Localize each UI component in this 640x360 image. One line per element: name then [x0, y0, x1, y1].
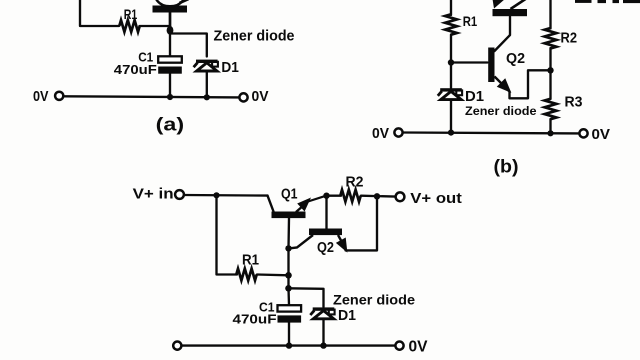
svg-text:Q2: Q2 — [317, 240, 334, 256]
resistor R3 (b) — [545, 94, 583, 120]
svg-text:(a): (a) — [156, 115, 185, 135]
svg-text:0V: 0V — [409, 339, 429, 356]
0V rail (b) — [403, 131, 580, 134]
wire Q2 base (c) — [325, 196, 327, 229]
svg-text:R1: R1 — [242, 253, 259, 269]
wire R1 to node (b) — [450, 35, 452, 63]
svg-text:V+ out: V+ out — [410, 191, 462, 207]
terminal left (c) — [173, 342, 181, 350]
svg-text:R1: R1 — [124, 6, 138, 22]
wire R1 to base node (c) — [257, 273, 289, 276]
svg-text:Q2: Q2 — [506, 51, 525, 67]
wire node D to node E (c) — [287, 275, 289, 288]
node: zener on rail (b) — [448, 130, 454, 136]
terminal 0V left (b) — [372, 125, 403, 142]
wire R3 to rail (b) — [549, 119, 551, 133]
wire — [140, 25, 171, 27]
svg-text:R2: R2 — [346, 175, 364, 191]
transistor Q2 (c) — [289, 229, 346, 257]
terminal 0V right (b) — [579, 126, 610, 143]
resistor R2 (c) — [340, 175, 363, 202]
wire down to R1 (c) — [217, 195, 238, 274]
capacitor C1 470uF (c) — [233, 299, 302, 326]
svg-text:Zener diode: Zener diode — [214, 28, 295, 45]
svg-text:V+ in: V+ in — [133, 187, 174, 203]
wire zener branch (c) — [289, 288, 324, 307]
zener diode D1 (a) — [194, 60, 239, 76]
resistor R1 (circuit a) — [119, 6, 139, 32]
wire to zener (a) — [170, 34, 207, 57]
0V rail (a) — [64, 96, 240, 97]
wire C1 to 0V rail (a) — [169, 74, 171, 97]
svg-text:0V: 0V — [33, 88, 49, 105]
svg-text:Zener diode: Zener diode — [333, 292, 415, 308]
zener diode D1 (c) — [310, 307, 356, 324]
svg-text:0V: 0V — [252, 88, 269, 105]
node E: zener branch junction (c) — [285, 285, 292, 292]
node: V+ in / R1 branch (c) — [213, 192, 219, 198]
wire zener to rail (b) — [450, 100, 452, 133]
terminal V+ out (c) — [396, 191, 462, 207]
node: C1 on rail (a) — [167, 94, 173, 100]
wire node A to R2 (c) — [327, 195, 342, 197]
resistor R1 (b) — [445, 13, 477, 35]
wire Q1 base down (c) — [287, 218, 290, 248]
label Zener diode (a) — [214, 28, 295, 45]
wire Q2 emitter staircase to right rail (b) — [510, 70, 551, 98]
node B: R2 / Q2 emitter / V+ out (c) — [374, 193, 380, 199]
zener diode D1 (b) — [438, 63, 484, 106]
terminal V+ in (c) — [133, 187, 184, 203]
node: R3 on rail (b) — [547, 130, 553, 136]
node: zener on rail (a) — [204, 94, 210, 100]
wire Q2 emitter to node B (c) — [346, 196, 378, 250]
label (b) — [494, 156, 519, 177]
svg-text:0V: 0V — [372, 125, 389, 142]
transistor Q1 (c) — [268, 187, 327, 219]
capacitor C1 470uF (a) — [114, 51, 182, 78]
svg-text:0V: 0V — [592, 126, 611, 143]
transistor Q1 (b, cut off at top) — [493, 0, 528, 16]
node: R1/zener/Q2 base junction (b) — [448, 59, 454, 65]
wire node E to C1 (c) — [287, 288, 290, 305]
node: zener on rail (c) — [320, 342, 326, 348]
wire R2 to node B (c) — [361, 195, 396, 198]
svg-text:D1: D1 — [465, 88, 484, 105]
wire R2 to node (b) — [549, 48, 551, 70]
resistor R1 (c) — [236, 253, 259, 281]
terminal 0V right (a) — [239, 88, 268, 105]
node: R1/emitter/C1/zener junction (a) — [167, 26, 174, 35]
0V rail (c) — [182, 344, 396, 346]
wire zener to 0V rail (a) — [206, 71, 208, 97]
label (a) — [156, 115, 185, 135]
node: C1 on rail (c) — [286, 342, 292, 348]
wire right rail top (b) — [549, 0, 551, 29]
svg-text:R1: R1 — [463, 13, 478, 29]
wire node to C1 (a) — [169, 30, 171, 57]
wire V+ feed left (b) — [450, 0, 452, 15]
label Zener diode (c) — [333, 292, 415, 308]
wire V+ in rail (c) — [185, 194, 268, 197]
terminal 0V left (a) — [33, 88, 63, 105]
node D: R1 junction (c) — [285, 272, 292, 279]
node: R2/R3/Q2 emitter junction (b) — [547, 67, 553, 73]
node A: Q1 emitter / R2 / Q2 base (c) — [323, 193, 329, 199]
svg-text:D1: D1 — [221, 60, 239, 76]
transistor Q (circuit a, cut off at top) — [153, 0, 189, 27]
wire node to Q2 base (b) — [451, 61, 488, 63]
svg-text:R2: R2 — [561, 31, 578, 47]
svg-text:R3: R3 — [565, 94, 583, 111]
resistor R2 (b) — [545, 28, 577, 48]
svg-text:470uF: 470uF — [233, 312, 277, 327]
svg-text:D1: D1 — [338, 308, 356, 324]
wire C1 to rail (c) — [288, 323, 290, 346]
svg-text:Zener diode: Zener diode — [465, 104, 537, 118]
label Zener diode (b) — [465, 104, 537, 118]
wire node C to node D (c) — [287, 248, 289, 275]
wire — [80, 0, 119, 26]
svg-text:Q1: Q1 — [281, 187, 298, 203]
wire node to R3 (b) — [549, 70, 551, 99]
wire zener to rail (c) — [322, 319, 324, 346]
node C: Q1 base / Q2 collector (c) — [285, 245, 291, 251]
cropped text fragments top right — [575, 0, 640, 3]
svg-text:470uF: 470uF — [114, 63, 157, 77]
svg-text:(b): (b) — [494, 156, 519, 177]
terminal 0V right (c) — [395, 339, 428, 356]
transistor Q2 (b) — [488, 17, 525, 92]
